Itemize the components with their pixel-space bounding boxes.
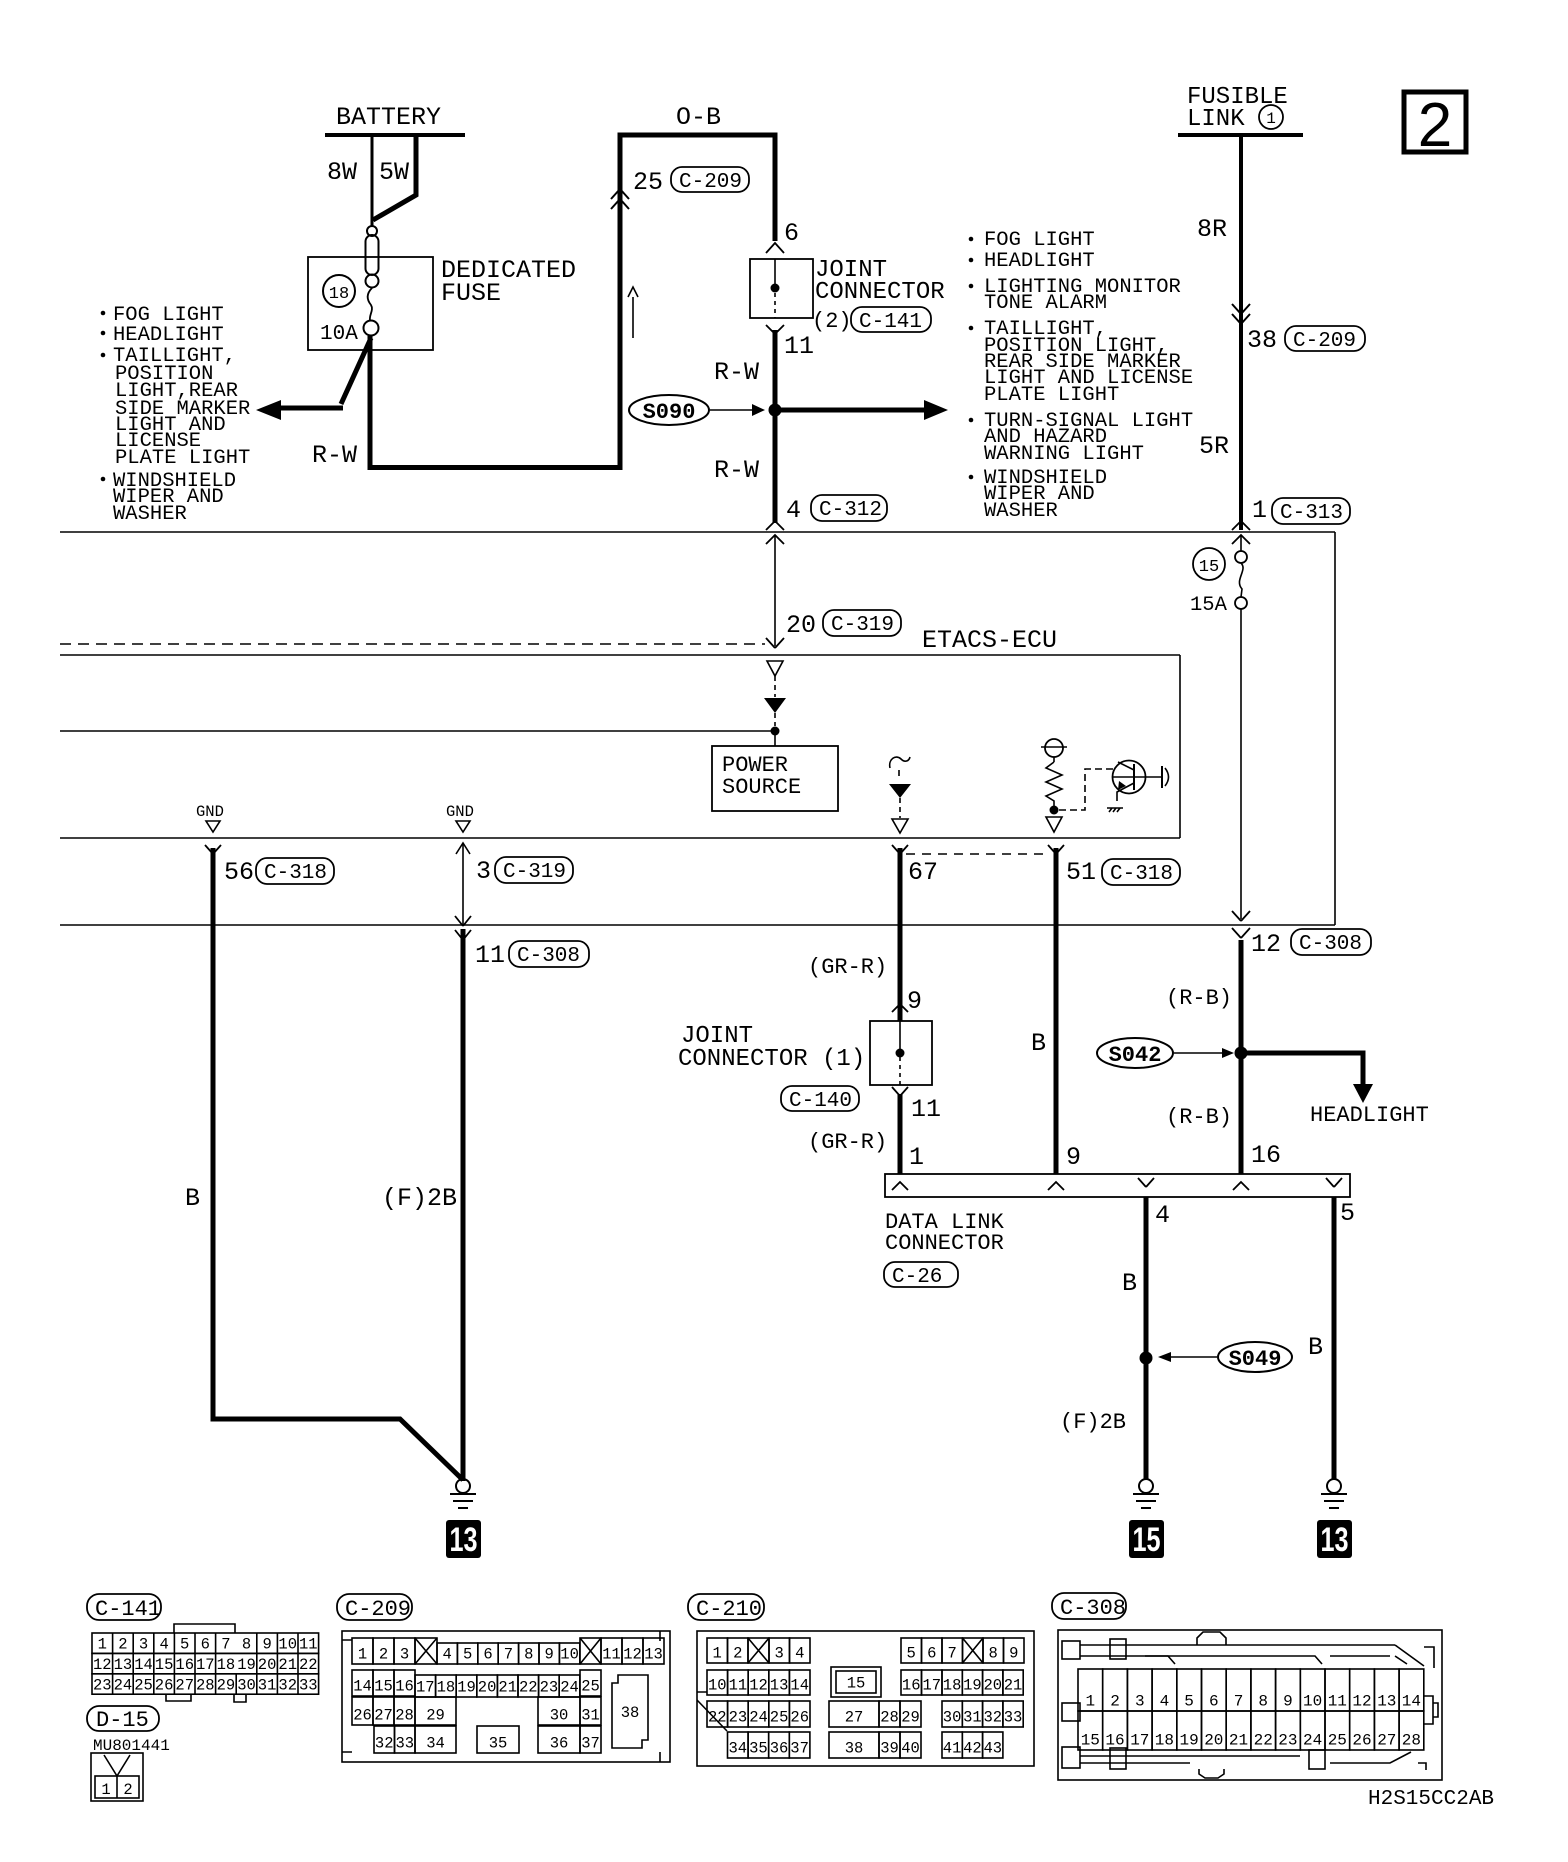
svg-text:2: 2 xyxy=(379,1646,388,1664)
svg-text:7: 7 xyxy=(948,1645,957,1663)
svg-text:25: 25 xyxy=(134,1676,153,1694)
svg-text:B: B xyxy=(1031,1029,1046,1058)
svg-text:9: 9 xyxy=(1066,1143,1081,1172)
svg-text:39: 39 xyxy=(880,1740,899,1758)
svg-text:C-318: C-318 xyxy=(264,862,327,885)
svg-text:25: 25 xyxy=(1328,1732,1347,1750)
svg-text:1: 1 xyxy=(101,1781,110,1799)
svg-text:13: 13 xyxy=(644,1646,663,1664)
wire 8W xyxy=(371,135,374,226)
svg-text:6: 6 xyxy=(784,219,799,248)
svg-text:22: 22 xyxy=(1254,1732,1273,1750)
svg-text:2: 2 xyxy=(733,1645,742,1663)
svg-text:4: 4 xyxy=(795,1645,804,1663)
page number box 2 xyxy=(1404,92,1466,152)
main thick wire from fuse to joint connector (O-B loop) xyxy=(370,135,775,468)
svg-text:1: 1 xyxy=(909,1143,924,1172)
fusible link element xyxy=(364,226,379,336)
svg-text:S049: S049 xyxy=(1229,1347,1282,1372)
svg-text:35: 35 xyxy=(749,1740,768,1758)
svg-text:15: 15 xyxy=(374,1678,393,1696)
wire DLC pin 4 to ground xyxy=(1144,1197,1149,1480)
svg-text:11: 11 xyxy=(729,1677,748,1695)
svg-text:C-319: C-319 xyxy=(831,614,894,637)
svg-text:17: 17 xyxy=(196,1656,215,1674)
transistor Q1 xyxy=(1107,761,1169,813)
svg-text:33: 33 xyxy=(1004,1709,1023,1727)
svg-text:CONNECTOR: CONNECTOR xyxy=(815,279,945,306)
svg-text:34: 34 xyxy=(728,1740,747,1758)
svg-text:3: 3 xyxy=(139,1636,148,1654)
wire from joint connector down xyxy=(773,330,778,523)
double chevron pass marker on O-B wire xyxy=(611,189,629,209)
svg-text:19: 19 xyxy=(457,1679,476,1697)
svg-text:36: 36 xyxy=(550,1735,569,1753)
pin 11 C-308 crossing xyxy=(455,916,471,926)
svg-text:42: 42 xyxy=(963,1740,982,1758)
svg-text:8: 8 xyxy=(242,1636,251,1654)
ECU input pin triangle at 20 xyxy=(767,661,783,676)
pins 67 / 51 below ETACS xyxy=(892,845,908,854)
svg-text:13: 13 xyxy=(1321,1521,1349,1559)
svg-text:14: 14 xyxy=(134,1656,153,1674)
svg-text:33: 33 xyxy=(299,1676,318,1694)
pin 9 chevron xyxy=(892,1004,908,1012)
svg-text:17: 17 xyxy=(1130,1732,1149,1750)
svg-text:4: 4 xyxy=(159,1636,168,1654)
svg-text:31: 31 xyxy=(963,1709,982,1727)
svg-text:5R: 5R xyxy=(1199,432,1229,461)
svg-text:16: 16 xyxy=(902,1677,921,1695)
svg-text:23: 23 xyxy=(93,1676,112,1694)
svg-text:C-318: C-318 xyxy=(1110,863,1173,886)
junction dot S090 xyxy=(769,404,782,417)
svg-text:12: 12 xyxy=(749,1677,768,1695)
wire 5W xyxy=(373,135,416,220)
svg-text:5: 5 xyxy=(907,1645,916,1663)
svg-text:30: 30 xyxy=(550,1707,569,1725)
pin 11 chevron below box xyxy=(892,1087,908,1096)
svg-text:28: 28 xyxy=(1402,1732,1421,1750)
svg-text:15A: 15A xyxy=(1190,594,1228,617)
svg-text:S042: S042 xyxy=(1109,1043,1162,1068)
svg-text:B: B xyxy=(185,1184,200,1213)
data link connector box xyxy=(885,1174,1350,1197)
svg-text:22: 22 xyxy=(519,1679,538,1697)
svg-text:32: 32 xyxy=(278,1676,297,1694)
resistor circle terminal xyxy=(1045,739,1063,757)
svg-text:9: 9 xyxy=(545,1646,554,1664)
svg-text:2: 2 xyxy=(1418,91,1452,160)
joint connector (2) box xyxy=(750,259,813,318)
outer box right edge xyxy=(1334,532,1336,925)
svg-text:S090: S090 xyxy=(643,400,696,425)
connector C-210 pin grid xyxy=(697,1631,1034,1766)
chevron at wire end pin 6 xyxy=(766,243,784,253)
connector C-209 label xyxy=(337,1594,412,1620)
svg-text:56: 56 xyxy=(224,858,254,887)
svg-text:7: 7 xyxy=(1234,1693,1244,1711)
svg-text:22: 22 xyxy=(299,1656,318,1674)
svg-text:14: 14 xyxy=(353,1678,372,1696)
svg-text:9: 9 xyxy=(262,1636,271,1654)
battery bus bar xyxy=(325,133,465,137)
svg-text:8: 8 xyxy=(524,1646,533,1664)
double chevron down C-209 crossing xyxy=(1232,304,1250,324)
svg-text:C-308: C-308 xyxy=(1060,1596,1126,1621)
svg-text:C-141: C-141 xyxy=(859,311,922,334)
fusible link bar xyxy=(1178,133,1303,137)
svg-text:18: 18 xyxy=(217,1656,236,1674)
ETACS box top xyxy=(60,654,1180,656)
svg-text:26: 26 xyxy=(790,1709,809,1727)
svg-text:20: 20 xyxy=(258,1656,277,1674)
svg-text:9: 9 xyxy=(1283,1693,1293,1711)
svg-text:8R: 8R xyxy=(1197,215,1227,244)
splice S090 xyxy=(629,395,709,425)
svg-text:4: 4 xyxy=(1160,1693,1170,1711)
fuse 15 xyxy=(1235,536,1247,919)
svg-text:(R-B): (R-B) xyxy=(1166,986,1232,1011)
svg-text:13: 13 xyxy=(770,1677,789,1695)
svg-text:11: 11 xyxy=(911,1095,941,1124)
svg-text:R-W: R-W xyxy=(714,358,759,387)
svg-text:5: 5 xyxy=(1184,1693,1194,1711)
wire B ground xyxy=(213,848,463,1480)
svg-text:25: 25 xyxy=(581,1678,600,1696)
svg-text:26: 26 xyxy=(1352,1732,1371,1750)
junction dot power source xyxy=(771,727,780,736)
svg-text:(2): (2) xyxy=(812,309,852,334)
svg-text:C-26: C-26 xyxy=(892,1266,942,1289)
power source box xyxy=(712,746,838,811)
svg-text:GND: GND xyxy=(446,803,474,821)
svg-text:15: 15 xyxy=(1199,558,1219,577)
svg-text:30: 30 xyxy=(943,1709,962,1727)
svg-text:WASHER: WASHER xyxy=(984,500,1058,523)
connector C-141 label xyxy=(87,1594,161,1620)
svg-text:13: 13 xyxy=(1377,1693,1396,1711)
svg-text:10: 10 xyxy=(278,1636,297,1654)
svg-text:15: 15 xyxy=(847,1675,866,1693)
svg-text:12: 12 xyxy=(93,1656,112,1674)
connector D-15 pin grid xyxy=(91,1753,143,1801)
svg-text:17: 17 xyxy=(922,1677,941,1695)
svg-text:(F)2B: (F)2B xyxy=(382,1184,457,1213)
svg-text:23: 23 xyxy=(729,1709,748,1727)
ground ref box 13 right xyxy=(1317,1520,1352,1558)
svg-text:11: 11 xyxy=(475,941,505,970)
svg-text:32: 32 xyxy=(375,1735,394,1753)
small direction arrow xyxy=(632,297,634,338)
svg-text:38: 38 xyxy=(1247,326,1277,355)
svg-text:19: 19 xyxy=(1179,1732,1198,1750)
output triangle pin 67 xyxy=(892,819,908,833)
diode D2 xyxy=(889,784,911,798)
svg-text:4: 4 xyxy=(786,496,801,525)
fuse number circle 15 xyxy=(1193,548,1225,580)
svg-text:21: 21 xyxy=(1004,1677,1023,1695)
svg-text:1: 1 xyxy=(1266,110,1276,128)
svg-text:3: 3 xyxy=(476,857,491,886)
svg-text:25: 25 xyxy=(633,168,663,197)
svg-text:9: 9 xyxy=(1009,1645,1018,1663)
svg-text:16: 16 xyxy=(395,1678,414,1696)
svg-text:24: 24 xyxy=(560,1679,579,1697)
svg-text:29: 29 xyxy=(426,1707,445,1725)
svg-text:3: 3 xyxy=(1135,1693,1145,1711)
svg-text:HEADLIGHT: HEADLIGHT xyxy=(984,250,1095,273)
svg-text:13: 13 xyxy=(450,1521,478,1559)
svg-text:10: 10 xyxy=(708,1677,727,1695)
wire to DLC pin 1 xyxy=(898,1094,903,1174)
pin 56 C-318 xyxy=(205,845,221,854)
svg-text:27: 27 xyxy=(845,1709,864,1727)
svg-text:7: 7 xyxy=(504,1646,513,1664)
ground center xyxy=(1133,1479,1159,1508)
wire B to DLC pin 9 xyxy=(1054,848,1059,1174)
svg-text:1: 1 xyxy=(713,1645,722,1663)
outer box bottom line xyxy=(60,924,1335,926)
fuse number circle 18 xyxy=(323,275,355,307)
svg-text:C-141: C-141 xyxy=(95,1597,161,1622)
svg-text:FOG LIGHT: FOG LIGHT xyxy=(984,229,1095,252)
svg-text:38: 38 xyxy=(621,1704,640,1722)
svg-text:(F)2B: (F)2B xyxy=(1060,1410,1126,1435)
svg-text:7: 7 xyxy=(221,1636,230,1654)
svg-text:1: 1 xyxy=(98,1636,107,1654)
svg-text:SOURCE: SOURCE xyxy=(722,775,801,800)
chevron below box pin 11 xyxy=(766,325,784,334)
svg-text:19: 19 xyxy=(237,1656,256,1674)
svg-text:20: 20 xyxy=(786,611,816,640)
svg-text:24: 24 xyxy=(749,1709,768,1727)
svg-text:C-209: C-209 xyxy=(679,171,742,194)
svg-text:C-210: C-210 xyxy=(696,1597,762,1622)
svg-text:CONNECTOR: CONNECTOR xyxy=(885,1231,1004,1256)
svg-text:34: 34 xyxy=(426,1735,445,1753)
ground right xyxy=(1321,1479,1347,1508)
svg-text:43: 43 xyxy=(983,1740,1002,1758)
svg-text:B: B xyxy=(1308,1333,1323,1362)
transistor emitter ground xyxy=(1107,808,1123,812)
output triangle pin 51 xyxy=(1046,817,1062,832)
svg-text:B: B xyxy=(1122,1269,1137,1298)
svg-text:20: 20 xyxy=(478,1679,497,1697)
svg-text:51: 51 xyxy=(1066,858,1096,887)
connector C-308 pin grid xyxy=(1058,1630,1442,1780)
svg-text:ETACS-ECU: ETACS-ECU xyxy=(922,626,1057,655)
svg-text:2: 2 xyxy=(123,1781,132,1799)
wire resistor to transistor base xyxy=(1059,769,1113,810)
svg-text:O-B: O-B xyxy=(676,103,721,132)
svg-text:12: 12 xyxy=(623,1646,642,1664)
svg-text:C-140: C-140 xyxy=(789,1090,852,1113)
svg-text:27: 27 xyxy=(1377,1732,1396,1750)
svg-text:11: 11 xyxy=(299,1636,318,1654)
svg-text:6: 6 xyxy=(201,1636,210,1654)
svg-text:5: 5 xyxy=(463,1646,472,1664)
connector C-209 pin grid xyxy=(342,1631,670,1762)
svg-text:8: 8 xyxy=(989,1645,998,1663)
svg-text:10: 10 xyxy=(1303,1693,1322,1711)
svg-text:38: 38 xyxy=(845,1740,864,1758)
svg-text:15: 15 xyxy=(155,1656,174,1674)
junction dot S049 xyxy=(1140,1352,1153,1365)
svg-text:35: 35 xyxy=(489,1735,508,1753)
svg-text:8W: 8W xyxy=(327,158,357,187)
svg-text:14: 14 xyxy=(1402,1693,1421,1711)
svg-text:WASHER: WASHER xyxy=(113,503,187,526)
svg-text:C-308: C-308 xyxy=(517,945,580,968)
svg-text:16: 16 xyxy=(1105,1732,1124,1750)
svg-text:4: 4 xyxy=(1155,1201,1170,1230)
svg-text:1: 1 xyxy=(1252,496,1267,525)
svg-text:15: 15 xyxy=(1133,1521,1161,1559)
svg-text:31: 31 xyxy=(581,1707,600,1725)
svg-text:25: 25 xyxy=(770,1709,789,1727)
svg-text:23: 23 xyxy=(540,1679,559,1697)
wire to ETACS pin 20 xyxy=(774,536,776,646)
connector C-308 label xyxy=(1052,1593,1126,1619)
arrow to left loads xyxy=(341,338,371,404)
wire (F)2B ground xyxy=(461,929,466,1481)
svg-text:67: 67 xyxy=(908,858,938,887)
svg-text:29: 29 xyxy=(901,1709,920,1727)
svg-text:20: 20 xyxy=(983,1677,1002,1695)
svg-text:C-308: C-308 xyxy=(1299,933,1362,956)
svg-text:BATTERY: BATTERY xyxy=(336,103,441,132)
svg-text:(GR-R): (GR-R) xyxy=(808,1130,887,1155)
wire from fusible link xyxy=(1239,135,1243,530)
svg-text:31: 31 xyxy=(258,1676,277,1694)
splice S049 xyxy=(1218,1342,1292,1372)
svg-text:WARNING LIGHT: WARNING LIGHT xyxy=(984,443,1144,466)
svg-text:33: 33 xyxy=(395,1735,414,1753)
svg-text:2: 2 xyxy=(118,1636,127,1654)
connector C-210 label xyxy=(688,1594,764,1620)
svg-text:16: 16 xyxy=(1251,1141,1281,1170)
svg-text:(GR-R): (GR-R) xyxy=(808,955,887,980)
svg-text:CONNECTOR (1): CONNECTOR (1) xyxy=(678,1046,865,1073)
ground ref box 15 xyxy=(1129,1520,1164,1558)
svg-text:27: 27 xyxy=(374,1707,393,1725)
svg-text:29: 29 xyxy=(217,1676,236,1694)
dashed ECU boundary xyxy=(60,643,765,645)
wire R-B from pin 12 xyxy=(1239,940,1244,1174)
svg-text:18: 18 xyxy=(437,1679,456,1697)
wire GR-R from pin 67 xyxy=(898,848,903,1021)
wire DLC pin 5 to ground xyxy=(1332,1197,1337,1480)
svg-text:2: 2 xyxy=(1110,1693,1120,1711)
svg-text:6: 6 xyxy=(483,1646,492,1664)
chevrons at C-312 crossing xyxy=(766,521,784,530)
svg-text:LINK: LINK xyxy=(1187,106,1245,133)
joint connector (1) box xyxy=(870,1021,932,1085)
svg-text:C-319: C-319 xyxy=(503,861,566,884)
svg-text:32: 32 xyxy=(983,1709,1002,1727)
pin 12 C-308 crossing xyxy=(1232,911,1250,921)
svg-text:16: 16 xyxy=(175,1656,194,1674)
svg-text:36: 36 xyxy=(770,1740,789,1758)
svg-text:17: 17 xyxy=(416,1679,435,1697)
svg-text:D-15: D-15 xyxy=(96,1708,149,1733)
svg-text:H2S15CC2AB: H2S15CC2AB xyxy=(1368,1788,1494,1811)
svg-text:22: 22 xyxy=(708,1709,727,1727)
svg-text:21: 21 xyxy=(498,1679,517,1697)
svg-text:C-313: C-313 xyxy=(1280,502,1343,525)
svg-text:TONE ALARM: TONE ALARM xyxy=(984,292,1107,315)
svg-text:41: 41 xyxy=(943,1740,962,1758)
svg-text:18: 18 xyxy=(329,285,349,304)
svg-text:19: 19 xyxy=(963,1677,982,1695)
svg-text:12: 12 xyxy=(1251,930,1281,959)
svg-text:5: 5 xyxy=(180,1636,189,1654)
svg-text:18: 18 xyxy=(1155,1732,1174,1750)
svg-text:21: 21 xyxy=(278,1656,297,1674)
svg-text:15: 15 xyxy=(1081,1732,1100,1750)
ETACS box right edge xyxy=(1179,655,1181,838)
svg-text:24: 24 xyxy=(114,1676,133,1694)
svg-text:21: 21 xyxy=(1229,1732,1248,1750)
junction dot resistor xyxy=(1050,806,1059,815)
svg-text:PLATE LIGHT: PLATE LIGHT xyxy=(115,447,250,470)
svg-text:9: 9 xyxy=(907,987,922,1016)
svg-text:3: 3 xyxy=(400,1646,409,1664)
svg-text:24: 24 xyxy=(1303,1732,1322,1750)
svg-text:40: 40 xyxy=(901,1740,920,1758)
svg-text:(R-B): (R-B) xyxy=(1166,1105,1232,1130)
svg-text:6: 6 xyxy=(1209,1693,1219,1711)
svg-text:10: 10 xyxy=(560,1646,579,1664)
svg-text:18: 18 xyxy=(943,1677,962,1695)
svg-text:1: 1 xyxy=(358,1646,367,1664)
svg-text:FUSE: FUSE xyxy=(441,279,501,308)
connector D-15 label xyxy=(87,1706,159,1731)
svg-text:5W: 5W xyxy=(379,158,409,187)
internal bus line xyxy=(60,730,775,732)
svg-text:20: 20 xyxy=(1204,1732,1223,1750)
svg-text:GND: GND xyxy=(196,803,224,821)
chevrons at C-313 crossing xyxy=(1232,521,1250,530)
svg-text:11: 11 xyxy=(784,332,814,361)
svg-text:13: 13 xyxy=(114,1656,133,1674)
svg-text:37: 37 xyxy=(790,1740,809,1758)
svg-text:C-209: C-209 xyxy=(1293,330,1356,353)
thick arrow right from S090 xyxy=(781,408,926,413)
splice S042 xyxy=(1097,1038,1173,1068)
svg-text:27: 27 xyxy=(175,1676,194,1694)
svg-text:8: 8 xyxy=(1258,1693,1268,1711)
pulse symbol xyxy=(890,757,910,776)
svg-text:12: 12 xyxy=(1352,1693,1371,1711)
svg-text:28: 28 xyxy=(395,1707,414,1725)
dedicated fuse box xyxy=(308,257,433,350)
svg-text:C-312: C-312 xyxy=(819,499,882,522)
diode D1 xyxy=(764,698,786,713)
svg-text:37: 37 xyxy=(581,1735,600,1753)
ground ref box 13 left xyxy=(446,1520,481,1558)
junction dot S042 xyxy=(1235,1047,1248,1060)
DLC pin chevrons xyxy=(892,1182,908,1190)
svg-text:11: 11 xyxy=(602,1646,621,1664)
resistor R1 xyxy=(1046,762,1062,806)
pin 3 C-319 wire xyxy=(462,843,464,925)
connector C-141 pin grid xyxy=(92,1624,319,1702)
svg-text:28: 28 xyxy=(880,1709,899,1727)
ETACS box bottom xyxy=(60,837,1180,839)
svg-text:3: 3 xyxy=(775,1645,784,1663)
